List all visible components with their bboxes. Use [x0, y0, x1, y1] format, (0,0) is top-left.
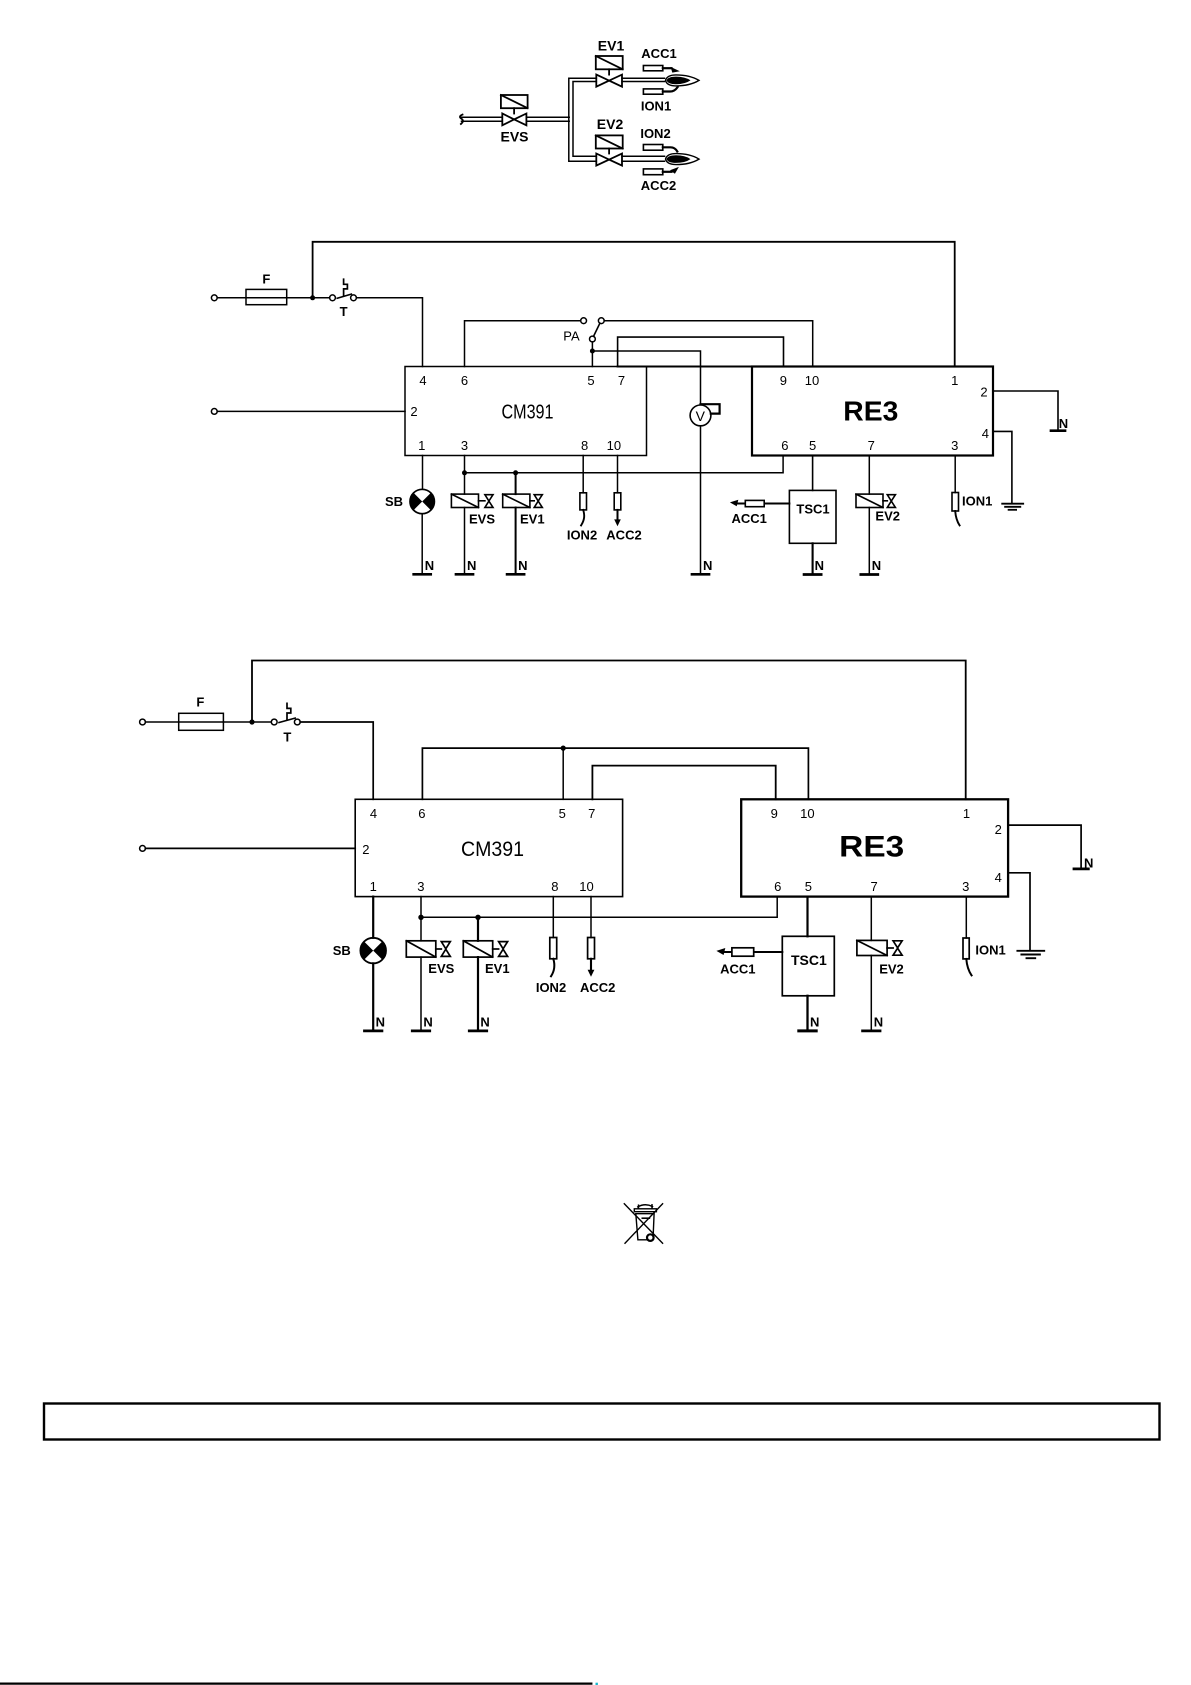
wire lamp to neutral [421, 514, 423, 573]
footer mark [596, 1683, 598, 1685]
junction node [462, 470, 467, 475]
svg-text:2: 2 [410, 404, 417, 419]
wire RE3 pin 5 to TSC1 [806, 897, 808, 937]
svg-text:6: 6 [781, 438, 788, 453]
wire CM391 pin 7 to RE3 pin 9 (loop) [618, 337, 784, 366]
wire TSC1 to neutral [812, 543, 814, 573]
wire pin3 node to RE3 pin 6 [421, 897, 777, 918]
svg-text:4: 4 [370, 806, 377, 821]
wire pin3 node to RE3 pin 6 [465, 456, 784, 473]
svg-text:5: 5 [805, 879, 812, 894]
burner flame 2 [666, 154, 700, 165]
neutral terminal N (EVS) [412, 1030, 429, 1033]
wire RE3 pin 4 to earth [1008, 873, 1030, 950]
svg-text:EV2: EV2 [875, 509, 900, 524]
wire CM391 pin 8 to ION2 [582, 456, 584, 493]
svg-text:10: 10 [805, 373, 819, 388]
svg-text:ACC2: ACC2 [641, 178, 676, 193]
wire node to EV1 [515, 473, 517, 494]
neutral terminal N (TSC1) [799, 1029, 816, 1032]
svg-text:CM391: CM391 [461, 838, 524, 861]
junction node [249, 719, 254, 724]
terminal N input [140, 846, 146, 852]
svg-text:2: 2 [362, 842, 369, 857]
wire RE3 pin 2 to neutral [993, 391, 1058, 429]
svg-text:5: 5 [809, 438, 816, 453]
svg-text:4: 4 [419, 373, 426, 388]
svg-text:EV1: EV1 [598, 38, 625, 54]
neutral terminal N (SB) [414, 573, 431, 576]
terminal N input [211, 409, 217, 415]
svg-text:10: 10 [579, 879, 593, 894]
svg-text:2: 2 [995, 822, 1002, 837]
wire CM391 pin 3 down [464, 456, 466, 495]
wire CM391 pin 10 to ACC2 [590, 897, 592, 938]
svg-text:7: 7 [868, 438, 875, 453]
svg-text:ACC1: ACC1 [720, 962, 755, 977]
svg-text:5: 5 [587, 373, 594, 388]
wire PA to RE3 pin 10 [604, 321, 813, 367]
wire CM391 pin 6 to PA switch [465, 321, 581, 367]
terminal L [211, 295, 217, 301]
svg-text:SB: SB [385, 494, 403, 509]
spark output ACC1 [730, 500, 790, 507]
junction node [513, 470, 518, 475]
thermostat TSC1 [782, 936, 834, 996]
air pressure switch PA [581, 318, 605, 342]
svg-text:N: N [874, 1015, 883, 1030]
svg-text:TSC1: TSC1 [796, 501, 829, 516]
svg-text:ION1: ION1 [975, 942, 1005, 957]
thermostat TSC1 [789, 490, 836, 543]
relay box RE3 [741, 799, 1008, 896]
earth ground (pin 4) [1002, 504, 1023, 510]
svg-text:ION2: ION2 [536, 980, 566, 995]
svg-text:3: 3 [461, 438, 468, 453]
svg-text:T: T [340, 304, 348, 319]
svg-text:N: N [703, 558, 712, 573]
junction node [561, 746, 566, 751]
svg-text:8: 8 [551, 879, 558, 894]
wire switch to CM391 pin 4 [300, 722, 373, 799]
svg-text:T: T [283, 730, 291, 745]
spark electrode ACC2 [614, 493, 621, 527]
wire fan V to neutral [700, 426, 702, 573]
svg-text:EV2: EV2 [879, 962, 904, 977]
svg-text:9: 9 [771, 806, 778, 821]
neutral terminal N (EV1) [469, 1030, 486, 1033]
svg-text:3: 3 [417, 879, 424, 894]
control box CM391 [355, 799, 622, 896]
ionisation electrode ION2 [550, 938, 557, 977]
svg-text:10: 10 [800, 806, 814, 821]
wire along chip tops pin7-pin9 [618, 365, 784, 367]
svg-text:EV1: EV1 [520, 512, 545, 527]
pushbutton switch T [330, 279, 357, 300]
wire RE3 pin 7 to EV2 [870, 897, 872, 941]
pipe EV1 to burner 1 [622, 78, 665, 81]
wire terminal to fuse [217, 297, 246, 299]
svg-text:ION2: ION2 [567, 527, 597, 542]
neutral terminal N (fan) [692, 573, 709, 576]
svg-text:RE3: RE3 [843, 396, 898, 427]
svg-text:V: V [696, 408, 706, 424]
burner flame 1 [666, 75, 700, 86]
svg-text:ACC1: ACC1 [641, 46, 676, 61]
neutral terminal N (EV1) [507, 573, 524, 576]
wire RE3 pin 7 to EV2 [868, 456, 870, 495]
svg-text:5: 5 [559, 806, 566, 821]
neutral terminal N (pin 2) [1051, 429, 1065, 432]
signal lamp SB [360, 938, 386, 964]
wire terminal to CM391 pin 2 [145, 847, 355, 849]
fuse F [246, 289, 287, 304]
signal lamp SB [410, 489, 434, 513]
svg-text:ACC2: ACC2 [580, 980, 615, 995]
wire EV1 to neutral [477, 957, 479, 1029]
ionisation electrode ION2 [580, 493, 587, 526]
svg-text:3: 3 [951, 438, 958, 453]
svg-text:N: N [518, 558, 527, 573]
solenoid valve EV2 (piping) [596, 135, 623, 165]
wire RE3 pin 5 to TSC1 [812, 456, 814, 491]
ionisation electrode ION2 (piping) [643, 145, 677, 152]
earth ground (pin 4) [1017, 951, 1044, 958]
wire RE3 pin 4 to earth [993, 431, 1012, 503]
svg-text:8: 8 [581, 438, 588, 453]
wire CM391 pin 3 down [420, 897, 422, 941]
svg-text:SB: SB [333, 943, 351, 958]
svg-text:1: 1 [370, 879, 377, 894]
junction node [475, 915, 480, 920]
svg-text:4: 4 [995, 870, 1002, 885]
relay box RE3 [752, 367, 993, 456]
svg-text:N: N [1059, 416, 1068, 431]
wire lamp to neutral [372, 963, 374, 1029]
wire fuse to switch [287, 297, 330, 299]
svg-text:1: 1 [951, 373, 958, 388]
svg-text:6: 6 [461, 373, 468, 388]
spark electrode ACC2 (piping) [643, 167, 679, 175]
svg-text:F: F [262, 271, 270, 286]
svg-text:N: N [467, 558, 476, 573]
svg-text:6: 6 [418, 806, 425, 821]
solenoid valve EVS [451, 494, 493, 507]
solenoid valve EVS [406, 941, 450, 957]
junction node [310, 295, 315, 300]
svg-text:F: F [196, 694, 204, 709]
svg-text:7: 7 [870, 879, 877, 894]
wire RE3 pin 3 to ION1 [954, 456, 956, 493]
wire node to EV1 [477, 917, 479, 941]
svg-text:EV2: EV2 [597, 116, 624, 132]
wire EVS to neutral [420, 957, 422, 1029]
wire CM391 pin 1 to lamp SB [422, 456, 424, 490]
svg-text:N: N [815, 558, 824, 573]
svg-text:7: 7 [618, 373, 625, 388]
empty note box [44, 1404, 1160, 1440]
svg-text:EVS: EVS [469, 512, 495, 527]
svg-text:N: N [376, 1015, 385, 1030]
solenoid valve EV2 [857, 940, 902, 955]
wire fuse to switch [223, 721, 271, 723]
svg-text:1: 1 [418, 438, 425, 453]
wire CM391 pin 7 to RE3 pin 9 [592, 766, 775, 800]
svg-text:ION1: ION1 [641, 99, 671, 114]
ionisation electrode ION1 [952, 493, 960, 526]
pipe EV2 to burner 2 [622, 156, 665, 161]
junction node [418, 915, 423, 920]
svg-text:N: N [425, 558, 434, 573]
ionisation electrode ION1 [963, 938, 972, 975]
svg-text:EV1: EV1 [485, 961, 510, 976]
wire EV2 to neutral [870, 956, 872, 1030]
svg-text:ACC2: ACC2 [606, 527, 641, 542]
footer rule [0, 1682, 591, 1684]
svg-text:7: 7 [588, 806, 595, 821]
fan V [690, 404, 720, 426]
spark output ACC1 [716, 948, 782, 956]
svg-text:N: N [1084, 856, 1093, 871]
svg-text:ION2: ION2 [640, 126, 670, 141]
wire CM391 pin 8 to ION2 [552, 897, 554, 938]
solenoid valve EV1 [463, 941, 507, 957]
svg-text:EVS: EVS [428, 961, 454, 976]
svg-text:N: N [810, 1015, 819, 1030]
wire: phase top rail to RE3 pin 1 [252, 661, 966, 800]
wire switch to CM391 pin 4 [356, 298, 422, 367]
wire RE3 pin 2 to neutral [1008, 825, 1081, 867]
wire PA node to fan V [592, 351, 700, 404]
wire CM391 pin 10 to ACC2 [617, 456, 619, 493]
svg-text:ION1: ION1 [962, 494, 992, 509]
wire CM391 pin 1 to lamp SB [372, 897, 374, 938]
wire EV2 to neutral [868, 508, 870, 573]
fuse F [179, 713, 224, 730]
spark electrode ACC2 [588, 938, 595, 977]
wire EV1 to neutral [515, 508, 517, 573]
neutral terminal N (TSC1) [804, 573, 821, 576]
svg-text:N: N [480, 1015, 489, 1030]
solenoid valve EV1 [503, 494, 543, 507]
neutral terminal N (SB) [365, 1030, 382, 1033]
pushbutton switch T [271, 703, 300, 725]
wire terminal to CM391 pin 2 [217, 410, 405, 412]
solenoid valve EV1 (piping) [596, 56, 623, 87]
svg-text:EVS: EVS [500, 129, 528, 145]
neutral terminal N (EVS) [456, 573, 473, 576]
svg-text:N: N [423, 1015, 432, 1030]
svg-text:PA: PA [563, 328, 580, 343]
ionisation electrode ION1 (piping) [643, 87, 677, 94]
wire terminal to fuse [145, 721, 178, 723]
svg-text:6: 6 [774, 879, 781, 894]
svg-text:3: 3 [962, 879, 969, 894]
solenoid valve EV2 [856, 494, 895, 507]
junction node [590, 349, 595, 354]
neutral terminal N (EV2) [863, 1030, 880, 1033]
crossed-out wheelie bin [624, 1204, 662, 1243]
wire: phase top rail to RE3 pin 1 [313, 242, 955, 367]
svg-text:TSC1: TSC1 [791, 952, 827, 968]
neutral terminal N (EV2) [861, 573, 878, 576]
svg-text:ACC1: ACC1 [731, 511, 766, 526]
svg-text:1: 1 [963, 806, 970, 821]
svg-text:RE3: RE3 [839, 830, 904, 863]
wire node to CM391 pin 5 [562, 748, 564, 799]
spark electrode ACC1 (piping) [643, 66, 679, 73]
svg-text:CM391: CM391 [502, 402, 554, 424]
svg-text:10: 10 [607, 438, 621, 453]
svg-text:2: 2 [980, 384, 987, 399]
control box CM391 [405, 367, 647, 456]
branch tee (double line) [569, 78, 597, 161]
svg-text:4: 4 [982, 426, 989, 441]
svg-text:N: N [872, 558, 881, 573]
wire CM391 pin 6 to RE3 pin 10 [422, 748, 808, 799]
wire EVS to neutral [464, 508, 466, 573]
terminal L [140, 719, 146, 725]
wire RE3 pin 3 to ION1 [965, 897, 967, 938]
solenoid valve EVS (piping) [501, 95, 528, 125]
gas supply pipe (double line) [460, 115, 569, 124]
neutral terminal N (pin 2) [1074, 868, 1088, 871]
wire PA common to CM391 pin 5 [591, 342, 593, 367]
svg-text:9: 9 [780, 373, 787, 388]
wire TSC1 to neutral [806, 996, 808, 1030]
